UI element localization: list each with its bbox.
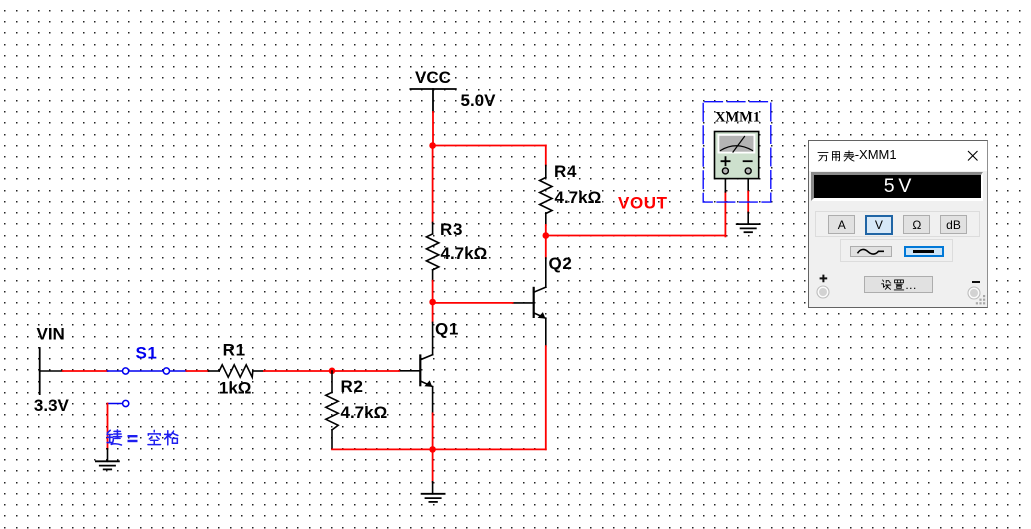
XMM1 terminal plus: [722, 168, 728, 174]
wire S1 to R1: [186, 370, 208, 372]
svg-text:R2: R2: [341, 377, 364, 396]
svg-text:VCC: VCC: [415, 68, 451, 87]
ground center: [422, 494, 445, 502]
resistor R1: [209, 365, 264, 377]
wire J1 down to R3: [432, 146, 434, 223]
panel display: [811, 172, 982, 201]
plus terminal label: [819, 274, 829, 284]
button dB: [940, 215, 967, 234]
transistor Q1: [399, 355, 433, 414]
button A: [828, 215, 855, 234]
XMM1 plus mark: [722, 157, 730, 165]
button AC: [850, 246, 892, 257]
wire J5 to ground: [432, 449, 434, 481]
wire VOUT horizontal J2 to meter: [546, 235, 726, 237]
minus input jack: [966, 285, 982, 301]
transistor Q2: [513, 287, 546, 346]
XMM1 terminal minus: [745, 168, 751, 174]
resistor R4: [540, 166, 552, 226]
svg-text:R4: R4: [554, 162, 577, 181]
button DC selected: [904, 246, 943, 257]
panel title bar: [809, 141, 987, 171]
svg-text:Q1: Q1: [435, 320, 459, 339]
svg-text:R3: R3: [440, 220, 463, 239]
settings button: [864, 276, 933, 293]
node J4 junction: [329, 368, 336, 375]
svg-text:5.0V: 5.0V: [461, 91, 497, 110]
wave groupbox: [840, 239, 953, 262]
minus terminal label: [972, 281, 980, 283]
svg-text:1kΩ: 1kΩ: [219, 379, 252, 398]
wire J1 right to R4 column: [433, 145, 546, 147]
S1 key caption CJK overlay: [0, 0, 1, 1]
wire J3 to Q1 collector: [432, 302, 434, 322]
wire down to R4: [545, 146, 547, 166]
wire VCC to node J1: [432, 112, 434, 146]
wire VIN out: [40, 370, 63, 372]
XMM1 minus mark: [744, 160, 752, 162]
resistor R2: [326, 371, 338, 449]
Q1 emitter arrow: [424, 380, 432, 387]
svg-text:4.7kΩ: 4.7kΩ: [341, 403, 388, 422]
resistor R3: [426, 223, 438, 281]
XMM1 meter face: [718, 135, 754, 153]
wire Q1 emitter to J5: [432, 413, 434, 449]
multimeter panel window: [808, 140, 988, 308]
source VIN bar: [39, 348, 41, 394]
svg-text:4.7kΩ: 4.7kΩ: [555, 188, 602, 207]
wire R1 to Q1 base: [264, 370, 399, 372]
wire S1 throw2 to ground: [107, 404, 109, 449]
svg-text:XMM1: XMM1: [715, 110, 760, 126]
svg-text:VOUT: VOUT: [618, 194, 668, 213]
ground left: [96, 461, 119, 469]
instrument XMM1 icon body: [715, 132, 759, 179]
node J5 junction: [429, 446, 436, 453]
plus input jack: [815, 284, 831, 300]
svg-text:Q2: Q2: [549, 254, 573, 273]
ground under XMM1: [737, 224, 760, 232]
svg-text:S1: S1: [136, 344, 158, 363]
svg-text:4.7kΩ: 4.7kΩ: [441, 244, 488, 263]
node J3 junction: [429, 299, 436, 306]
panel title text: [817, 149, 897, 162]
wire up to XMM1 plus: [724, 192, 726, 237]
node J1 junction: [429, 142, 436, 149]
wire Q2 emitter down: [545, 346, 547, 449]
node J2 junction: [543, 232, 550, 239]
panel close button: [967, 150, 979, 162]
wire Q2 base to node J3: [433, 302, 513, 304]
resize grip: [975, 295, 987, 307]
svg-text:3.3V: 3.3V: [34, 396, 70, 415]
wire J2 down to Q2 collector: [545, 236, 547, 259]
wire bottom rail: [332, 448, 546, 450]
wire R3 to J3: [432, 281, 434, 302]
panel mode groupbox: [815, 211, 980, 237]
wire R4 to node J2: [545, 225, 547, 236]
Q2 emitter arrow: [538, 312, 546, 319]
svg-text:R1: R1: [223, 341, 246, 360]
power VCC: [410, 89, 455, 112]
glyph defs for CJK: [0, 0, 4, 4]
XMM1 meter scale arc and needle: [721, 146, 753, 151]
button ohm: [903, 215, 930, 234]
XMM1 selection box dashed: [703, 102, 771, 202]
wire XMM1 minus down: [747, 172, 749, 192]
switch S1: [108, 368, 187, 407]
svg-text:VIN: VIN: [37, 325, 65, 344]
button V selected: [865, 215, 893, 234]
